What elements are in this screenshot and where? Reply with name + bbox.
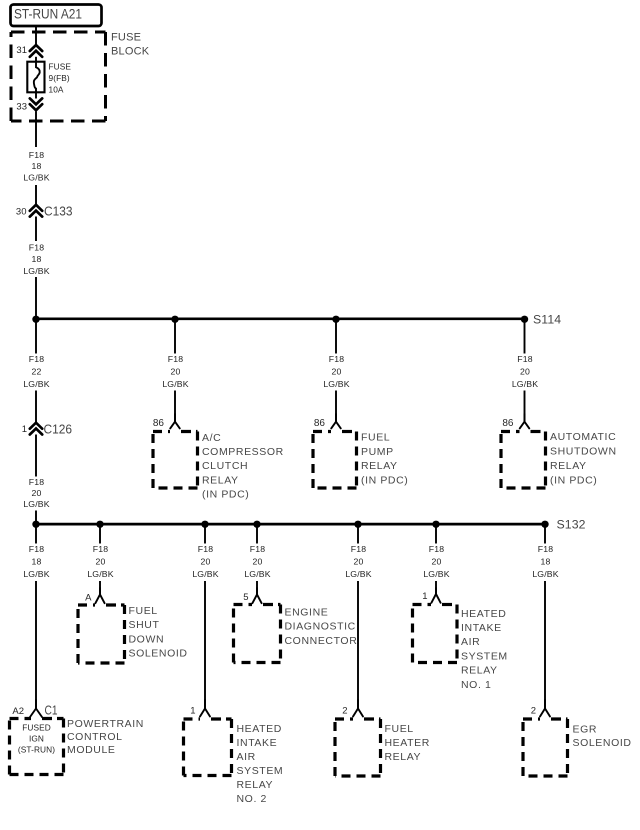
svg-text:FUSE: FUSE — [49, 61, 72, 71]
svg-text:EGR: EGR — [573, 723, 598, 735]
svg-text:SHUT: SHUT — [129, 619, 160, 631]
splice bus S132 horizontal wire — [36, 523, 545, 526]
svg-text:1: 1 — [22, 424, 27, 435]
svg-text:S132: S132 — [557, 518, 586, 532]
connector arrow at pin 33 (double chevron down) — [30, 98, 42, 110]
splice node S132 dot and label — [541, 518, 585, 532]
svg-text:1: 1 — [422, 591, 427, 602]
svg-text:HEATED: HEATED — [461, 608, 506, 620]
relay box: automatic shutdown relay — [501, 432, 546, 489]
svg-text:F18: F18 — [29, 354, 44, 364]
svg-text:5: 5 — [243, 592, 248, 603]
svg-text:LG/BK: LG/BK — [192, 569, 218, 579]
component box: heated intake air system relay no.2 — [184, 719, 232, 776]
wire drop from S132 at x257 — [256, 524, 258, 543]
svg-text:POWERTRAIN: POWERTRAIN — [67, 718, 144, 730]
svg-text:FUEL: FUEL — [129, 605, 158, 617]
wire label F18 18 LG/BK at x36 — [23, 544, 49, 579]
svg-text:SOLENOID: SOLENOID — [129, 648, 188, 660]
long wire to EGR solenoid pin 2 — [544, 581, 546, 709]
junction dot at x36 on S114 — [32, 316, 39, 323]
pin 1 of heated intake air system relay no.2 — [190, 705, 195, 716]
svg-text:SYSTEM: SYSTEM — [237, 765, 284, 777]
wire label F18 18 LG/BK — [23, 150, 49, 183]
svg-text:33: 33 — [16, 102, 27, 113]
svg-text:(IN PDC): (IN PDC) — [550, 474, 597, 486]
svg-text:RELAY: RELAY — [461, 665, 498, 677]
wire label F18 20 LG/BK at x175 — [162, 354, 188, 389]
component box: heated intake air system relay no.1 — [413, 605, 458, 663]
svg-text:9(FB): 9(FB) — [49, 73, 70, 83]
label A/C COMPRESSOR CLUTCH RELAY (IN PDC) — [202, 432, 284, 501]
svg-text:30: 30 — [16, 206, 27, 217]
fuse 9(FB) 10A — [27, 62, 44, 93]
svg-text:A: A — [85, 592, 92, 603]
relay box: A/C compressor clutch relay — [153, 432, 198, 489]
connector arrow at pin 31 (double chevron up) — [30, 45, 42, 57]
svg-text:18: 18 — [32, 161, 42, 171]
label ENGINE DIAGNOSTIC CONNECTOR — [285, 606, 358, 647]
svg-text:LG/BK: LG/BK — [23, 499, 49, 509]
pin fork at 86 of A/C compressor clutch relay — [170, 414, 180, 428]
pin fork at 5 of engine diagnostic connector — [252, 588, 261, 603]
label EGR SOLENOID — [573, 723, 632, 749]
wire stub to S132 — [35, 511, 37, 525]
svg-text:INTAKE: INTAKE — [237, 737, 278, 749]
wire from label to pin 86 of automatic shutdown relay — [524, 391, 526, 422]
svg-text:22: 22 — [32, 367, 42, 377]
wire drop from S132 at x205 — [204, 524, 206, 543]
pin 1 of heated intake air system relay no.1 — [422, 591, 427, 602]
pin 86 of automatic shutdown relay — [502, 418, 514, 429]
wire to engine diagnostic connector pin 5 — [256, 581, 258, 595]
wire drop from S132 at x358 — [357, 524, 359, 543]
fuse value label FUSE 9(FB) 10A — [49, 61, 72, 94]
connector box ST-RUN A21 — [11, 5, 102, 27]
svg-text:20: 20 — [354, 557, 364, 567]
relay box: fuel pump relay — [313, 432, 357, 489]
svg-text:20: 20 — [201, 557, 211, 567]
pin fork at A2 / connector C1 of powertrain control module — [30, 700, 58, 718]
pin 2 of fuel heater relay — [342, 705, 347, 716]
pin fork at A of fuel shut down solenoid — [95, 588, 104, 603]
svg-text:20: 20 — [520, 367, 530, 377]
junction dot at x336 on S114 — [332, 316, 339, 323]
svg-text:C1: C1 — [45, 703, 58, 718]
svg-text:(IN PDC): (IN PDC) — [202, 489, 249, 501]
pin 5 of engine diagnostic connector — [243, 592, 248, 603]
label HEATED INTAKE AIR SYSTEM RELAY NO. 2 — [237, 723, 284, 805]
svg-text:SOLENOID: SOLENOID — [573, 737, 632, 749]
connector C126 (double chevron up) — [30, 421, 72, 436]
svg-text:AIR: AIR — [461, 636, 480, 648]
svg-text:FUEL: FUEL — [361, 431, 390, 443]
wire label F18 18 LG/BK below C133 — [23, 242, 49, 275]
pin 30 at C133 — [16, 206, 27, 217]
pin 31 — [16, 45, 27, 56]
svg-text:18: 18 — [32, 557, 42, 567]
svg-text:LG/BK: LG/BK — [423, 569, 449, 579]
svg-text:BLOCK: BLOCK — [111, 46, 150, 58]
svg-text:NO. 1: NO. 1 — [461, 679, 491, 691]
splice node S114 dot and label — [521, 313, 561, 327]
svg-text:2: 2 — [531, 705, 536, 716]
svg-text:20: 20 — [253, 557, 263, 567]
wire label F18 20 LG/BK above S132 — [23, 477, 49, 509]
internal label FUSED IGN (ST-RUN) — [18, 723, 55, 755]
svg-text:LG/BK: LG/BK — [23, 266, 49, 276]
junction dot at x436 on S132 — [432, 521, 439, 528]
svg-text:CONTROL: CONTROL — [67, 731, 123, 743]
svg-text:F18: F18 — [29, 150, 44, 160]
svg-text:20: 20 — [171, 367, 181, 377]
wire label F18 20 LG/BK at x524 — [512, 354, 538, 389]
wire from label to pin 86 of fuel pump relay — [335, 391, 337, 422]
pin fork at 86 of fuel pump relay — [331, 414, 341, 428]
svg-text:LG/BK: LG/BK — [23, 173, 49, 183]
wire to fuel shut down solenoid pin A — [99, 581, 101, 595]
svg-text:F18: F18 — [29, 477, 44, 487]
svg-text:LG/BK: LG/BK — [162, 379, 188, 389]
svg-text:LG/BK: LG/BK — [512, 379, 538, 389]
svg-text:20: 20 — [432, 557, 442, 567]
svg-text:RELAY: RELAY — [237, 779, 274, 791]
pin fork at 1 of heated intake air system relay no.1 — [431, 588, 440, 603]
svg-text:FUSE: FUSE — [111, 32, 141, 44]
svg-text:DIAGNOSTIC: DIAGNOSTIC — [285, 621, 356, 633]
pin A2 of powertrain control module — [12, 706, 24, 717]
pin fork at 86 of automatic shutdown relay — [520, 414, 530, 428]
svg-text:COMPRESSOR: COMPRESSOR — [202, 446, 284, 458]
wire label F18 18 LG/BK at x545 — [532, 544, 558, 579]
wire from ST-RUN A21 to fuse pin 31 — [35, 26, 37, 45]
svg-text:86: 86 — [153, 418, 165, 429]
svg-text:FUSED: FUSED — [22, 723, 51, 733]
label POWERTRAIN CONTROL MODULE — [67, 718, 144, 756]
svg-text:FUEL: FUEL — [385, 723, 414, 735]
svg-text:A2: A2 — [12, 706, 24, 717]
connector C133 (double chevron up) — [30, 203, 73, 218]
svg-text:(ST-RUN): (ST-RUN) — [18, 745, 55, 755]
svg-text:F18: F18 — [250, 544, 265, 554]
svg-text:(IN PDC): (IN PDC) — [361, 475, 408, 487]
svg-text:AIR: AIR — [237, 751, 256, 763]
junction dot at x36 on S132 — [32, 521, 39, 528]
svg-text:F18: F18 — [538, 544, 553, 554]
wire from label to pin 86 of A/C compressor clutch relay — [174, 391, 176, 422]
svg-text:31: 31 — [16, 45, 27, 56]
wire drop from S132 at x36 — [35, 524, 37, 543]
wire below C126 — [35, 435, 37, 477]
wire to heated intake air system relay no.1 pin 1 — [435, 581, 437, 594]
svg-text:F18: F18 — [93, 544, 108, 554]
wire from label to connector C126 — [35, 391, 37, 424]
svg-text:20: 20 — [96, 557, 106, 567]
pin 86 of fuel pump relay — [314, 418, 326, 429]
wire drop from S114 at x336 to fuel pump relay — [335, 319, 337, 353]
pin 2 of EGR solenoid — [531, 705, 536, 716]
svg-text:A/C: A/C — [202, 432, 221, 444]
svg-text:LG/BK: LG/BK — [87, 569, 113, 579]
svg-text:F18: F18 — [29, 242, 44, 252]
junction dot at x205 on S132 — [201, 521, 208, 528]
svg-text:LG/BK: LG/BK — [345, 569, 371, 579]
wire drop from S114 at x524 to automatic shutdown relay — [524, 319, 526, 353]
component box: engine diagnostic connector — [234, 605, 281, 663]
junction dot at x100 on S132 — [96, 521, 103, 528]
wire label F18 22 LG/BK — [23, 354, 49, 389]
svg-text:86: 86 — [502, 418, 514, 429]
svg-text:AUTOMATIC: AUTOMATIC — [550, 431, 616, 443]
pin fork at 2 of fuel heater relay — [353, 700, 363, 717]
svg-text:RELAY: RELAY — [550, 460, 587, 472]
wire fuse to pin 33 — [35, 92, 37, 98]
svg-text:F18: F18 — [168, 354, 183, 364]
svg-text:CONNECTOR: CONNECTOR — [285, 635, 358, 647]
splice bus S114 horizontal wire — [36, 317, 525, 320]
svg-text:F18: F18 — [351, 544, 366, 554]
svg-text:F18: F18 — [329, 354, 344, 364]
svg-text:DOWN: DOWN — [129, 633, 165, 645]
label HEATED INTAKE AIR SYSTEM RELAY NO. 1 — [461, 608, 508, 691]
svg-text:SHUTDOWN: SHUTDOWN — [550, 446, 617, 458]
svg-text:86: 86 — [314, 418, 326, 429]
wire leaving fuse block — [35, 112, 37, 148]
svg-text:RELAY: RELAY — [385, 751, 422, 763]
svg-text:2: 2 — [342, 705, 347, 716]
wire pin 31 to fuse — [35, 57, 37, 62]
long wire to powertrain control module pin A2 — [35, 581, 37, 709]
svg-text:LG/BK: LG/BK — [323, 379, 349, 389]
wire label F18 20 LG/BK at x205 — [192, 544, 218, 579]
wire from label to splice S114 — [35, 277, 37, 319]
svg-text:ENGINE: ENGINE — [285, 606, 329, 618]
wire drop from S132 at x100 — [99, 524, 101, 543]
svg-text:F18: F18 — [429, 544, 444, 554]
component box: fuel heater relay — [335, 719, 381, 776]
wire below C133 — [35, 217, 37, 242]
svg-text:HEATED: HEATED — [237, 723, 282, 735]
svg-text:IGN: IGN — [29, 734, 44, 744]
label FUEL PUMP RELAY (IN PDC) — [361, 431, 408, 486]
component box: fuel shut down solenoid — [78, 605, 125, 663]
wire drop from S132 at x436 — [435, 524, 437, 543]
svg-text:RELAY: RELAY — [202, 474, 239, 486]
wire drop from S114 at x175 to A/C compressor clutch relay — [174, 319, 176, 353]
long wire to heated intake air system relay no.2 pin 1 — [204, 581, 206, 709]
pin 86 of A/C compressor clutch relay — [153, 418, 165, 429]
label FUEL HEATER RELAY — [385, 723, 430, 763]
label FUEL SHUT DOWN SOLENOID — [129, 605, 188, 660]
svg-text:CLUTCH: CLUTCH — [202, 460, 248, 472]
svg-text:20: 20 — [332, 367, 342, 377]
svg-text:20: 20 — [32, 488, 42, 498]
svg-text:LG/BK: LG/BK — [23, 379, 49, 389]
svg-text:PUMP: PUMP — [361, 446, 394, 458]
svg-text:INTAKE: INTAKE — [461, 622, 502, 634]
svg-text:F18: F18 — [198, 544, 213, 554]
fuse block enclosure — [11, 32, 106, 121]
svg-text:C126: C126 — [44, 421, 73, 436]
svg-text:18: 18 — [32, 254, 42, 264]
junction dot at x257 on S132 — [253, 521, 260, 528]
wire label F18 20 LG/BK at x257 — [244, 544, 270, 579]
wire to connector C133 — [35, 185, 37, 205]
svg-text:ST-RUN A21: ST-RUN A21 — [14, 6, 82, 21]
junction dot at x358 on S132 — [354, 521, 361, 528]
svg-text:10A: 10A — [49, 84, 64, 94]
svg-text:C133: C133 — [44, 203, 73, 218]
wire label F18 20 LG/BK at x336 — [323, 354, 349, 389]
svg-text:F18: F18 — [517, 354, 532, 364]
svg-text:NO. 2: NO. 2 — [237, 793, 267, 805]
svg-text:MODULE: MODULE — [67, 744, 116, 756]
svg-text:1: 1 — [190, 705, 195, 716]
svg-text:LG/BK: LG/BK — [532, 569, 558, 579]
svg-text:SYSTEM: SYSTEM — [461, 650, 508, 662]
wire drop from S132 at x545 — [544, 524, 546, 543]
pin fork at 1 of heated intake air system relay no.2 — [200, 700, 210, 717]
svg-text:LG/BK: LG/BK — [244, 569, 270, 579]
component box: EGR solenoid — [523, 719, 568, 776]
junction dot at x175 on S114 — [171, 316, 178, 323]
svg-text:HEATER: HEATER — [385, 737, 430, 749]
wire label F18 20 LG/BK at x436 — [423, 544, 449, 579]
svg-text:F18: F18 — [29, 544, 44, 554]
wire drop from S114 at x36 — [35, 319, 37, 353]
svg-text:LG/BK: LG/BK — [23, 569, 49, 579]
label FUSE BLOCK — [111, 32, 150, 58]
long wire to fuel heater relay pin 2 — [357, 581, 359, 709]
svg-text:S114: S114 — [533, 313, 561, 327]
pin 33 — [16, 102, 27, 113]
component box: powertrain control module — [10, 719, 64, 775]
svg-text:18: 18 — [541, 557, 551, 567]
wire label F18 20 LG/BK at x100 — [87, 544, 113, 579]
pin fork at 2 of EGR solenoid — [540, 700, 550, 717]
svg-text:RELAY: RELAY — [361, 460, 398, 472]
wire label F18 20 LG/BK at x358 — [345, 544, 371, 579]
pin 1 at C126 — [22, 424, 27, 435]
pin A of fuel shut down solenoid — [85, 592, 92, 603]
label AUTOMATIC SHUTDOWN RELAY (IN PDC) — [550, 431, 617, 486]
